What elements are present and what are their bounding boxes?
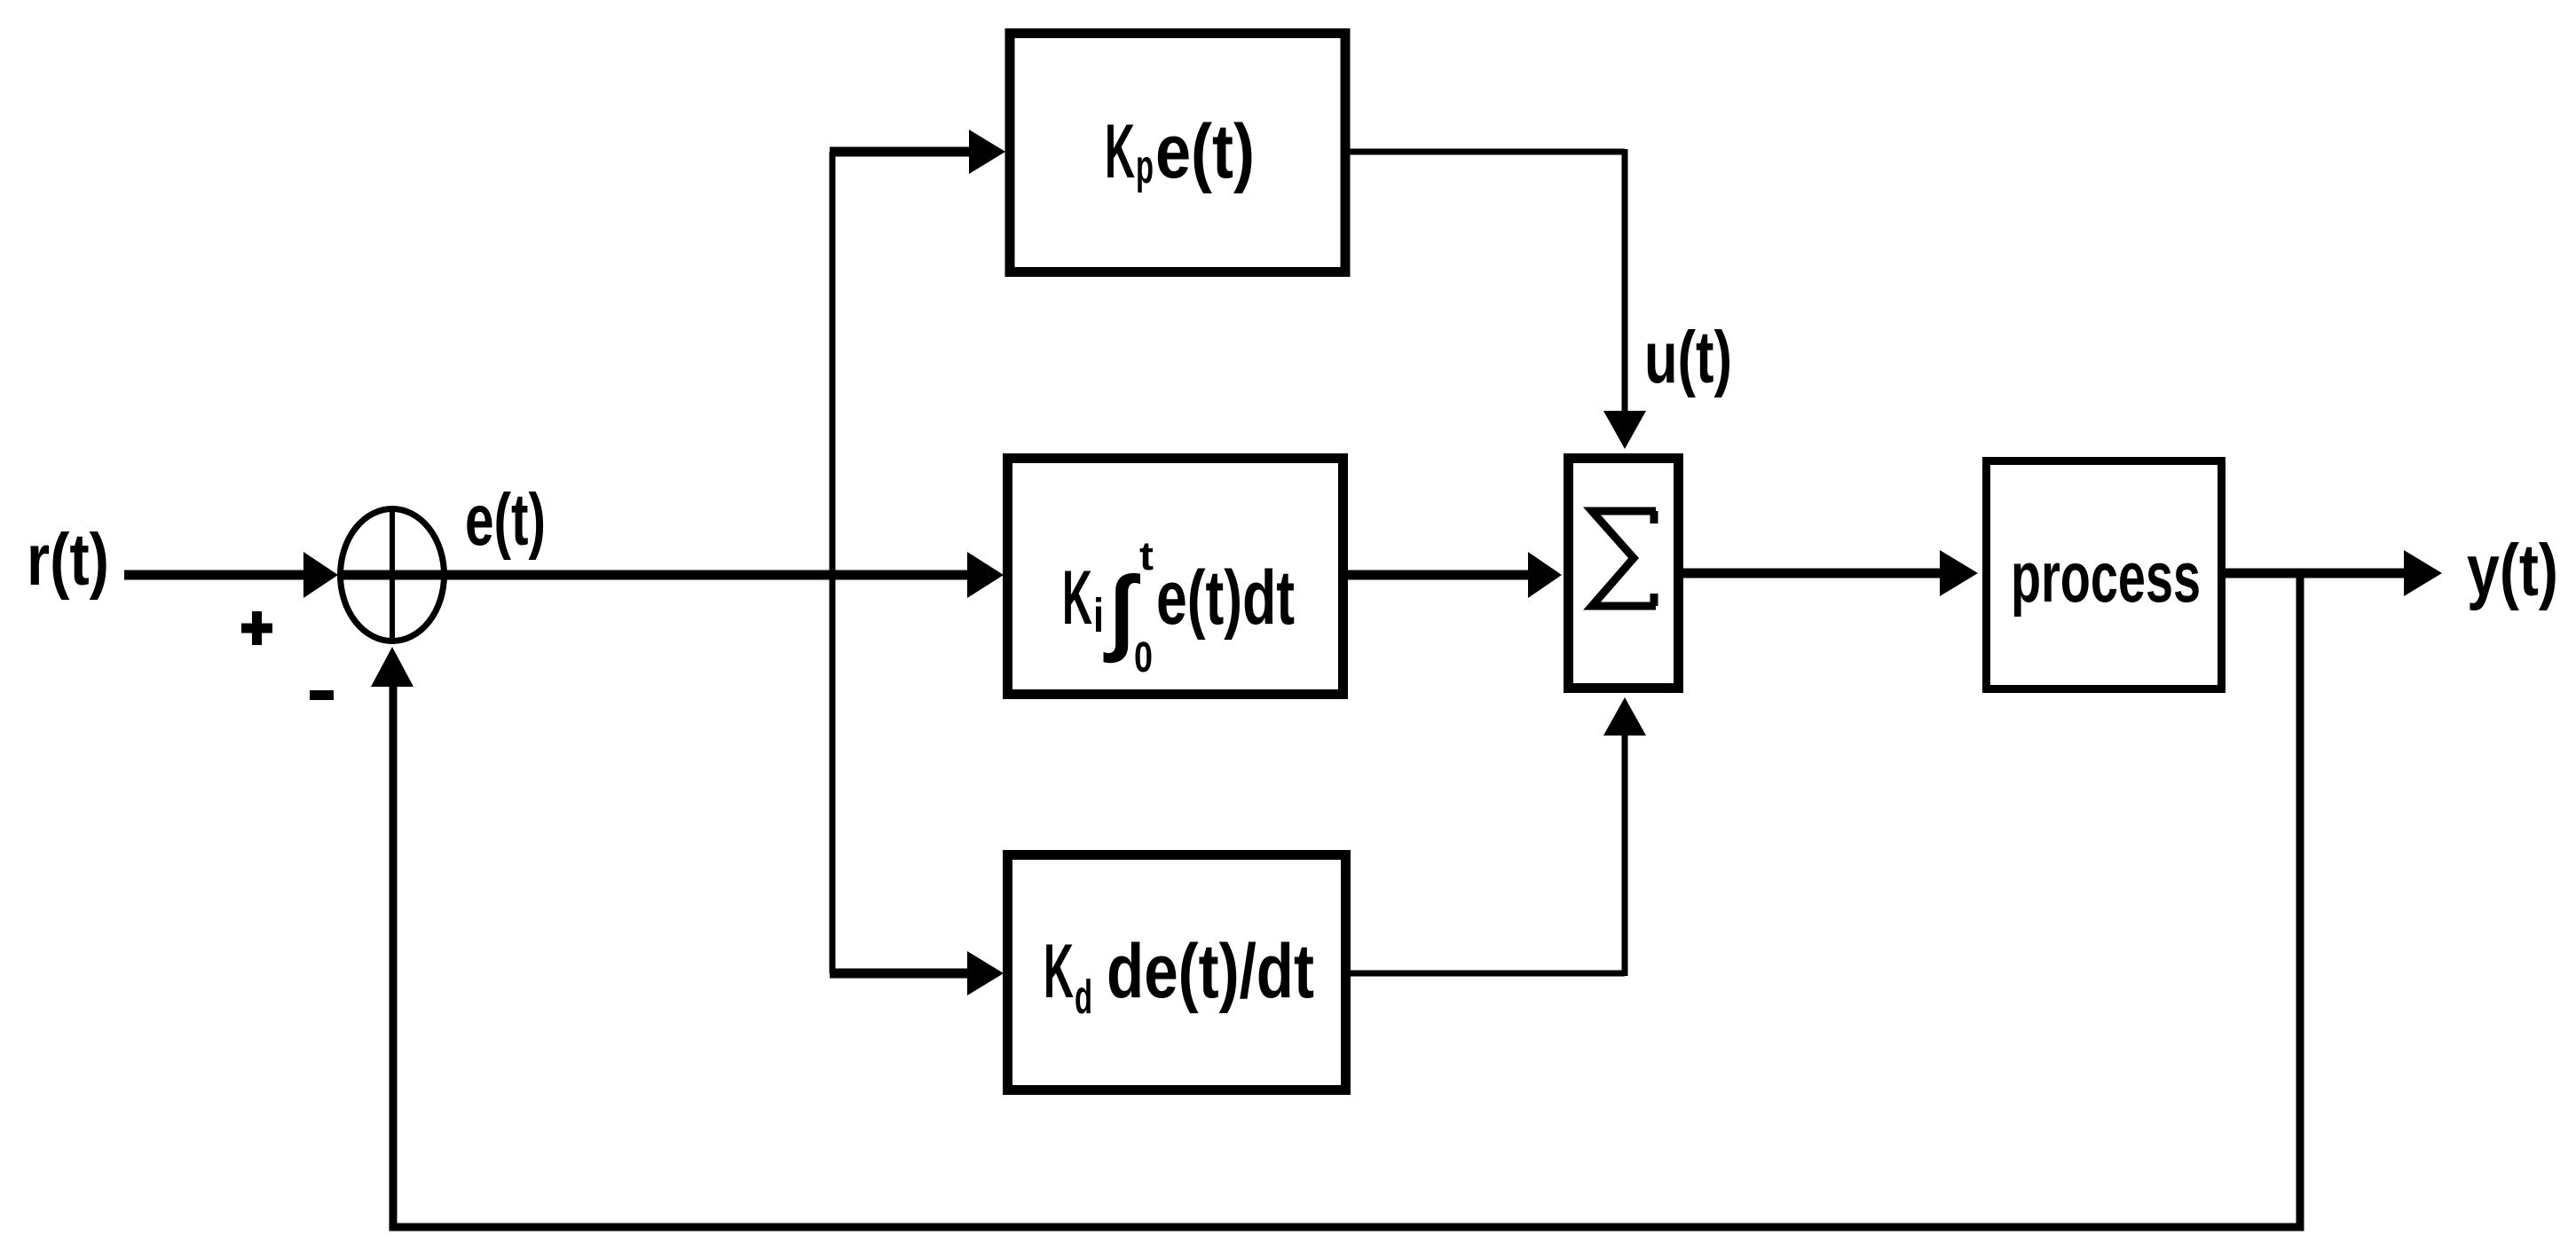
svg-text:e(t)dt: e(t)dt [1156, 555, 1295, 641]
svg-text:p: p [1136, 140, 1154, 193]
svg-text:de(t)/dt: de(t)/dt [1107, 929, 1314, 1014]
svg-text:K: K [1062, 555, 1092, 641]
svg-text:i: i [1093, 589, 1104, 642]
svg-text:e(t): e(t) [1155, 109, 1255, 194]
svg-text:K: K [1105, 109, 1135, 194]
svg-text:y(t): y(t) [2467, 529, 2558, 611]
svg-text:0: 0 [1134, 634, 1153, 681]
svg-text:process: process [2011, 538, 2201, 618]
svg-text:u(t): u(t) [1644, 316, 1732, 398]
svg-text:t: t [1139, 533, 1154, 578]
svg-text:e(t): e(t) [465, 478, 546, 561]
svg-text:r(t): r(t) [27, 518, 109, 601]
svg-text:d: d [1075, 971, 1092, 1024]
svg-text:K: K [1044, 929, 1074, 1014]
